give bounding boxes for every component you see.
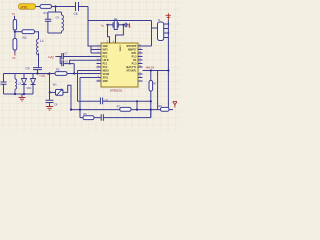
capacitor C3 xyxy=(125,23,128,28)
power flag Vb (red) xyxy=(12,53,16,60)
capacitor C8 xyxy=(62,60,69,67)
svg-text:GND: GND xyxy=(103,46,108,48)
svg-text:TX: TX xyxy=(12,12,16,16)
ground tick (red) xyxy=(128,23,130,27)
wire xyxy=(63,56,101,58)
svg-text:L4: L4 xyxy=(40,39,44,43)
wire right rail xyxy=(167,20,169,109)
resistor R5 xyxy=(55,68,67,76)
wire xyxy=(63,85,71,109)
ground (red) xyxy=(46,107,53,111)
svg-text:C2: C2 xyxy=(105,98,109,102)
svg-text:AT89C51: AT89C51 xyxy=(110,89,123,93)
node M xyxy=(150,69,152,71)
wire xyxy=(118,24,125,26)
diode VD2 xyxy=(31,74,36,95)
node A xyxy=(54,5,56,7)
svg-text:C8: C8 xyxy=(65,60,69,64)
wire xyxy=(70,60,101,63)
svg-text:C4: C4 xyxy=(26,67,30,71)
capacitor C4 xyxy=(26,67,43,74)
svg-text:(EAI) TTL: (EAI) TTL xyxy=(126,66,137,69)
node B xyxy=(14,31,16,33)
wire xyxy=(108,24,114,26)
wire xyxy=(57,57,62,64)
node L xyxy=(167,69,169,71)
svg-text:VD1: VD1 xyxy=(27,86,33,90)
inductor L2 xyxy=(62,12,64,33)
svg-text:INT0: INT0 xyxy=(103,50,109,52)
svg-text:VCCB: VCCB xyxy=(103,74,110,76)
svg-text:LIN B: LIN B xyxy=(103,60,109,62)
svg-text:+VD: +VD xyxy=(48,56,55,60)
speaker flag (red) xyxy=(173,102,177,108)
label tag X1 (yellow) xyxy=(19,4,36,10)
svg-text:JX9C: JX9C xyxy=(20,5,28,9)
wire row2 xyxy=(71,109,162,111)
resistor Rb xyxy=(13,39,17,51)
resistor R9 xyxy=(83,112,94,119)
inductor L4 xyxy=(37,39,44,55)
svg-text:R2: R2 xyxy=(23,36,27,40)
svg-text:XTAL: XTAL xyxy=(103,77,109,80)
op-amp U1 body xyxy=(101,43,138,87)
wire xyxy=(55,7,57,13)
node D xyxy=(14,93,16,95)
wire chip pin row to bottom xyxy=(78,71,102,102)
wire xyxy=(35,32,39,39)
wire xyxy=(14,30,16,32)
svg-text:R5: R5 xyxy=(56,68,60,72)
svg-text:RST/VPP: RST/VPP xyxy=(127,46,137,48)
svg-text:Ya: Ya xyxy=(101,23,105,27)
wire xyxy=(143,70,169,72)
wire top rail xyxy=(88,20,152,22)
wire xyxy=(14,32,16,53)
power flag TX (red) xyxy=(12,12,16,19)
node P xyxy=(70,109,72,111)
wire xyxy=(38,53,40,68)
svg-text:MOSI: MOSI xyxy=(103,71,109,73)
svg-text:RA: RA xyxy=(133,59,137,62)
wire xyxy=(87,7,89,21)
capacitor C5 xyxy=(74,2,79,16)
capacitor C9 xyxy=(45,12,59,33)
svg-text:GND: GND xyxy=(103,81,108,83)
node K xyxy=(122,24,124,26)
power flag +VD lower (red) xyxy=(39,74,49,79)
wire xyxy=(50,73,56,75)
diode VD1 xyxy=(22,74,33,95)
svg-text:C6: C6 xyxy=(74,12,78,16)
node C xyxy=(36,72,38,74)
resistor R2 xyxy=(22,30,35,40)
wire xyxy=(36,6,41,8)
resistor R3 xyxy=(13,20,16,31)
svg-text:R6: R6 xyxy=(153,81,157,85)
resistor R6 xyxy=(149,71,156,118)
node G xyxy=(73,72,75,74)
wire xyxy=(48,32,62,34)
wire xyxy=(79,6,89,8)
wire bus to pin1 xyxy=(88,21,101,47)
ground (red) xyxy=(19,94,26,101)
wire xyxy=(136,101,138,109)
pin numbers xyxy=(98,45,142,82)
inductor L3 xyxy=(15,74,21,95)
node H xyxy=(69,63,71,65)
wire row1 xyxy=(78,100,151,102)
wire xyxy=(67,73,101,75)
capacitor C6 xyxy=(46,100,58,106)
wire xyxy=(143,21,158,47)
wire xyxy=(73,64,75,74)
svg-text:C6: C6 xyxy=(54,102,58,106)
svg-text:MR.9S: MR.9S xyxy=(146,66,154,70)
svg-text:R1: R1 xyxy=(44,11,48,15)
svg-text:W1: W1 xyxy=(53,83,57,87)
resistor R7 xyxy=(117,104,131,111)
node S xyxy=(150,109,152,111)
wire xyxy=(52,6,76,8)
node Q xyxy=(79,109,81,111)
capacitor C7 xyxy=(62,52,68,60)
svg-text:AT0 (NTL: AT0 (NTL xyxy=(126,70,137,73)
node N xyxy=(136,100,138,102)
chip left pins xyxy=(97,46,102,81)
svg-text:INT1: INT1 xyxy=(131,53,137,55)
chip top pins xyxy=(107,40,115,43)
node I xyxy=(49,91,51,93)
trimmer W1 xyxy=(50,83,64,96)
capacitor C2 xyxy=(100,98,108,105)
wire chip pin row to row2 xyxy=(80,78,101,110)
resistor R8 xyxy=(158,104,173,111)
resistor R1 xyxy=(40,5,52,15)
svg-text:P1.5: P1.5 xyxy=(132,57,137,59)
chip right pins xyxy=(138,46,143,81)
svg-text:MB/P17: MB/P17 xyxy=(128,50,137,52)
wire vertical B xyxy=(157,71,159,110)
svg-text:P1.3: P1.3 xyxy=(132,64,137,66)
wire xyxy=(15,31,22,33)
crystal Y2 xyxy=(113,17,118,30)
svg-text:C7: C7 xyxy=(64,52,68,56)
wire xyxy=(60,63,74,65)
wire pin bus xyxy=(91,46,101,53)
node O xyxy=(150,100,152,102)
wire tank bottom xyxy=(4,93,34,95)
svg-text:Vb: Vb xyxy=(12,56,16,60)
wire xyxy=(116,25,124,43)
node E xyxy=(23,93,25,95)
wire xyxy=(48,11,62,13)
node R xyxy=(136,109,138,111)
wire row3 xyxy=(80,110,151,118)
wire xyxy=(49,74,51,101)
node F xyxy=(48,72,50,74)
svg-text:C2051: C2051 xyxy=(119,45,121,52)
capacitor C10 xyxy=(101,114,103,121)
node J xyxy=(106,24,108,26)
power flag +V (red) xyxy=(166,13,171,20)
capacitor C1 xyxy=(1,74,7,95)
svg-text:P3.1: P3.1 xyxy=(103,64,108,66)
svg-text:+VD: +VD xyxy=(39,74,46,78)
power flag +VD upper (red) xyxy=(48,56,57,60)
svg-text:INT1: INT1 xyxy=(103,53,109,55)
svg-text:P3.0: P3.0 xyxy=(103,67,108,69)
svg-text:C9: C9 xyxy=(56,16,60,20)
wire xyxy=(108,25,110,43)
connector J1 xyxy=(158,18,170,41)
svg-text:P3.2: P3.2 xyxy=(103,57,108,59)
wire tank rail xyxy=(4,73,50,75)
